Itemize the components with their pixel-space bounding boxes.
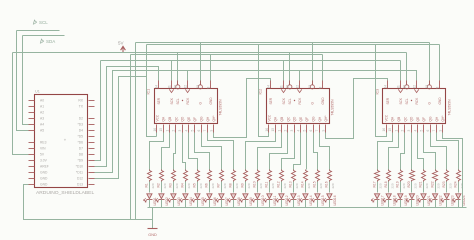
wire IC2 QG to R — [314, 133, 318, 170]
LED LED23 — [441, 182, 454, 208]
LED LED9 — [240, 182, 253, 208]
wire VCC riser IC3 — [376, 45, 387, 137]
svg-text:D7: D7 — [79, 146, 83, 150]
svg-text:RE3: RE3 — [40, 140, 47, 144]
svg-text:220: 220 — [379, 183, 383, 188]
svg-text:6: 6 — [426, 130, 430, 132]
svg-text:ARDUINO_SHIELDLABEL: ARDUINO_SHIELDLABEL — [36, 190, 94, 196]
svg-text:15: 15 — [388, 128, 392, 132]
LED LED2 — [156, 182, 169, 208]
svg-text:SCL: SCL — [176, 98, 180, 104]
LED LED19 — [395, 182, 408, 208]
resistor R2 — [157, 170, 167, 189]
svg-text:LED7: LED7 — [225, 197, 229, 205]
svg-text:13: 13 — [425, 85, 429, 89]
svg-text:R24: R24 — [454, 181, 458, 187]
wire SCL stub — [17, 30, 60, 32]
wire IC2 QC to R — [270, 133, 288, 170]
wire IC2 QE to R — [294, 133, 301, 170]
svg-text:220: 220 — [460, 183, 464, 188]
svg-text:LED8: LED8 — [237, 197, 241, 205]
resistor R11 — [265, 170, 275, 189]
svg-text:220: 220 — [175, 183, 179, 188]
svg-text:R9: R9 — [241, 183, 245, 187]
svg-text:R12: R12 — [277, 181, 281, 187]
svg-text:LED16: LED16 — [333, 195, 337, 205]
svg-text:QH: QH — [318, 116, 322, 121]
svg-text:IC2: IC2 — [259, 89, 263, 95]
svg-text:9: 9 — [439, 130, 443, 132]
wire IC1 QH to R — [208, 133, 234, 170]
svg-text:*D6: *D6 — [78, 140, 84, 144]
svg-text:VCC: VCC — [267, 114, 271, 121]
svg-text:13: 13 — [196, 85, 200, 89]
wire SCK drop IC1 — [171, 61, 173, 81]
svg-text:QD: QD — [293, 116, 297, 121]
resistor R24 — [454, 170, 464, 189]
LED LED24 — [453, 182, 466, 208]
svg-text:R23: R23 — [442, 181, 446, 187]
svg-text:220: 220 — [151, 183, 155, 188]
svg-text:220: 220 — [319, 183, 323, 188]
wire IC3 QH to R — [437, 133, 459, 170]
IC IC1 74LS595 shift register — [153, 81, 223, 133]
svg-text:220: 220 — [414, 183, 418, 188]
svg-text:QB: QB — [397, 117, 401, 122]
svg-text:QE: QE — [187, 117, 191, 122]
svg-text:13: 13 — [308, 85, 312, 89]
LED LED20 — [406, 182, 419, 208]
svg-text:3: 3 — [407, 130, 411, 132]
svg-text:12: 12 — [183, 85, 187, 89]
svg-text:QF: QF — [193, 117, 197, 121]
svg-text:3: 3 — [290, 130, 294, 132]
svg-text:SCK: SCK — [170, 97, 174, 104]
wire SCK bus — [101, 60, 401, 62]
resistor R12 — [277, 170, 287, 189]
svg-text:A3: A3 — [40, 116, 44, 120]
svg-text:6: 6 — [197, 130, 201, 132]
wire GND bus — [131, 54, 323, 56]
svg-text:QB: QB — [168, 117, 172, 122]
LED LED13 — [288, 182, 301, 208]
resistor R21 — [419, 170, 429, 189]
svg-text:R20: R20 — [407, 181, 411, 187]
svg-text:3: 3 — [178, 130, 182, 132]
wire VCC riser IC2 — [259, 45, 269, 137]
resistor R22 — [430, 170, 440, 189]
svg-text:SCK: SCK — [399, 97, 403, 104]
svg-text:220: 220 — [211, 183, 215, 188]
node SCL net label — [33, 20, 48, 25]
svg-text:12: 12 — [295, 85, 299, 89]
svg-text:R8: R8 — [229, 183, 233, 187]
LED LED8 — [228, 182, 241, 208]
wire IC1 QD to R — [183, 133, 186, 170]
svg-text:VIN: VIN — [40, 146, 46, 150]
svg-text:74LS595N: 74LS595N — [219, 99, 223, 116]
svg-text:220: 220 — [448, 183, 452, 188]
LED LED1 — [144, 182, 157, 208]
svg-text:5: 5 — [191, 130, 195, 132]
svg-text:QG: QG — [200, 116, 204, 121]
svg-text:220: 220 — [295, 183, 299, 188]
svg-text:8: 8 — [436, 87, 440, 89]
svg-text:SER: SER — [157, 97, 161, 104]
wire 5V net horizontal — [13, 52, 407, 54]
svg-text:LED4: LED4 — [189, 197, 193, 205]
svg-text:11: 11 — [396, 85, 400, 89]
svg-text:9: 9 — [322, 130, 326, 132]
resistor R9 — [241, 170, 251, 189]
svg-text:220: 220 — [223, 183, 227, 188]
svg-text:220: 220 — [235, 183, 239, 188]
svg-text:10: 10 — [174, 85, 178, 89]
svg-text:QD: QD — [410, 116, 414, 121]
svg-text:LED5: LED5 — [201, 197, 205, 205]
svg-text:D8: D8 — [79, 152, 83, 156]
node IC3 designator — [376, 89, 380, 95]
node U1 designator — [35, 89, 40, 93]
resistor R16 — [325, 170, 335, 189]
svg-text:D2: D2 — [79, 116, 83, 120]
svg-text:220: 220 — [331, 183, 335, 188]
svg-text:GND: GND — [438, 97, 442, 105]
svg-text:QF: QF — [305, 117, 309, 121]
resistor R5 — [193, 170, 203, 189]
svg-text:*D5: *D5 — [78, 134, 84, 138]
svg-text:RCK: RCK — [298, 97, 302, 105]
wire IC3 QD to R — [411, 133, 413, 170]
resistor R3 — [169, 170, 179, 189]
wire VCC1 feed — [95, 77, 147, 179]
wire VCC bus end drop — [439, 45, 441, 81]
svg-text:LED3: LED3 — [177, 197, 181, 205]
IC U1 Arduino shield symbol — [29, 95, 95, 188]
wire SCK left trunk — [95, 61, 101, 161]
svg-text:2: 2 — [172, 130, 176, 132]
svg-text:R5: R5 — [193, 183, 197, 187]
node U1 value label — [36, 190, 94, 196]
LED LED21 — [418, 182, 431, 208]
svg-text:5: 5 — [420, 130, 424, 132]
svg-text:QC: QC — [286, 116, 290, 121]
svg-text:220: 220 — [402, 183, 406, 188]
svg-text:A4: A4 — [40, 122, 44, 126]
svg-text:QH*: QH* — [324, 115, 328, 122]
svg-text:IC1: IC1 — [147, 89, 151, 95]
LED LED5 — [192, 182, 205, 208]
svg-text:*D10: *D10 — [76, 164, 83, 168]
svg-text:LED9: LED9 — [249, 197, 253, 205]
svg-text:AREF: AREF — [40, 164, 49, 168]
wire G-OE bus — [136, 42, 430, 44]
svg-text:D4: D4 — [79, 128, 83, 132]
wire IC3 QG to R — [431, 133, 447, 170]
LED LED7 — [216, 182, 229, 208]
svg-text:GND: GND — [209, 97, 213, 105]
svg-text:QD: QD — [181, 116, 185, 121]
svg-text:GND: GND — [148, 233, 157, 237]
wire IC2 QD to R — [282, 133, 295, 170]
LED LED10 — [252, 182, 265, 208]
svg-text:QF: QF — [422, 117, 426, 121]
wire SDA vertical — [23, 36, 29, 125]
resistor R6 — [205, 170, 215, 189]
wire IC2 QF to R — [306, 133, 308, 170]
svg-text:GND: GND — [40, 170, 48, 174]
svg-text:R10: R10 — [253, 181, 257, 187]
svg-text:A1: A1 — [40, 104, 44, 108]
svg-text:220: 220 — [437, 183, 441, 188]
svg-text:IC3: IC3 — [376, 89, 380, 95]
resistor R1 — [145, 170, 155, 189]
svg-text:GND: GND — [321, 97, 325, 105]
svg-text:LED1: LED1 — [153, 197, 157, 205]
svg-text:SCL: SCL — [405, 98, 409, 104]
svg-text:11: 11 — [279, 85, 283, 89]
wire VCC riser IC1 — [147, 45, 157, 137]
svg-text:GND: GND — [40, 176, 48, 180]
svg-text:14: 14 — [267, 85, 271, 89]
svg-text:220: 220 — [307, 183, 311, 188]
wire QH'1 to SER IC2 — [214, 79, 271, 138]
svg-text:R18: R18 — [384, 181, 388, 187]
IC IC3 74LS595 shift register — [382, 81, 452, 133]
svg-text:10: 10 — [403, 85, 407, 89]
svg-text:16: 16 — [265, 128, 269, 132]
svg-text:QE: QE — [416, 117, 420, 122]
wire SCK drop IC3 — [400, 61, 402, 81]
svg-text:220: 220 — [283, 183, 287, 188]
svg-text:R2: R2 — [157, 183, 161, 187]
svg-text:A5: A5 — [40, 128, 44, 132]
svg-text:R7: R7 — [217, 183, 221, 187]
wire IC1 QA to R — [150, 133, 164, 170]
resistor R14 — [301, 170, 311, 189]
svg-text:4: 4 — [413, 130, 417, 132]
svg-text:R16: R16 — [325, 181, 329, 187]
svg-text:*D9: *D9 — [78, 158, 84, 162]
ground GND symbol — [148, 208, 158, 238]
resistor R10 — [253, 170, 263, 189]
wire IC1 QB to R — [162, 133, 170, 170]
node IC2 designator — [259, 89, 263, 95]
svg-text:3.0V: 3.0V — [40, 158, 48, 162]
svg-text:QH: QH — [435, 116, 439, 121]
svg-text:10: 10 — [286, 85, 290, 89]
svg-text:74LS595N: 74LS595N — [448, 99, 452, 116]
wire IC3 QB to R — [389, 133, 399, 170]
svg-text:220: 220 — [187, 183, 191, 188]
node IC1 designator — [147, 89, 151, 95]
svg-text:74LS595N: 74LS595N — [331, 99, 335, 116]
LED LED11 — [264, 182, 277, 208]
wire IC2 QA to R — [246, 133, 276, 170]
svg-text:1: 1 — [394, 130, 398, 132]
svg-text:QH: QH — [206, 116, 210, 121]
svg-text:14: 14 — [384, 85, 388, 89]
wire SDA stub — [23, 35, 65, 37]
LED LED18 — [383, 182, 396, 208]
svg-text:R21: R21 — [419, 181, 423, 187]
svg-text:A2: A2 — [40, 110, 44, 114]
svg-text:5V: 5V — [118, 40, 124, 45]
svg-text:220: 220 — [259, 183, 263, 188]
resistor R20 — [407, 170, 417, 189]
svg-text:SER: SER — [386, 97, 390, 104]
resistor R13 — [289, 170, 299, 189]
LED LED3 — [168, 182, 181, 208]
svg-text:220: 220 — [163, 183, 167, 188]
resistor R17 — [372, 170, 382, 189]
svg-text:D12: D12 — [77, 176, 83, 180]
resistor R7 — [217, 170, 227, 189]
svg-text:R13: R13 — [289, 181, 293, 187]
wire QH'2 to SER IC3 — [326, 79, 388, 139]
wire SCK drop IC2 — [283, 61, 285, 81]
svg-text:2: 2 — [401, 130, 405, 132]
svg-text:16: 16 — [382, 128, 386, 132]
svg-text:14: 14 — [155, 85, 159, 89]
svg-text:9: 9 — [210, 130, 214, 132]
wire GND drop IC1 — [210, 55, 212, 81]
svg-text:1: 1 — [277, 130, 281, 132]
resistor R18 — [384, 170, 394, 189]
svg-text:220: 220 — [425, 183, 429, 188]
svg-text:LED2: LED2 — [165, 197, 169, 205]
svg-text:220: 220 — [199, 183, 203, 188]
wire RCK drop IC2 — [299, 71, 301, 81]
svg-text:R17: R17 — [372, 181, 376, 187]
wire 5V to Arduino 5V pin — [13, 53, 29, 155]
wire LED cathode rail — [148, 207, 467, 209]
svg-text:5: 5 — [303, 130, 307, 132]
svg-text:R11: R11 — [265, 182, 269, 188]
svg-text:6: 6 — [309, 130, 313, 132]
svg-text:GND: GND — [40, 182, 48, 186]
svg-text:220: 220 — [390, 183, 394, 188]
svg-text:11: 11 — [167, 85, 171, 89]
svg-text:220: 220 — [247, 183, 251, 188]
IC IC2 74LS595 shift register — [265, 81, 335, 133]
wire IC1 QF to R — [195, 133, 210, 170]
wire VCC stub IC1 — [156, 133, 158, 137]
svg-text:15: 15 — [159, 128, 163, 132]
LED LED22 — [429, 182, 442, 208]
wire GND feeder from U1 — [24, 185, 153, 220]
svg-text:QC: QC — [174, 116, 178, 121]
wire RCK drop IC1 — [187, 71, 189, 81]
wire GND drop IC2 — [322, 55, 324, 81]
LED LED16 — [324, 182, 337, 208]
wire GND left trunk — [130, 55, 132, 220]
resistor R23 — [442, 170, 452, 189]
svg-text:A0: A0 — [40, 98, 44, 102]
LED LED17 — [371, 182, 384, 208]
svg-text:SCL: SCL — [288, 98, 292, 104]
resistor R8 — [229, 170, 239, 189]
wire G-OE drop IC2 — [312, 43, 314, 85]
svg-text:15: 15 — [271, 128, 275, 132]
wire QH'3 to rail — [443, 133, 463, 208]
svg-text:QC: QC — [403, 116, 407, 121]
wire IC2 QH to R — [320, 133, 330, 170]
svg-text:7: 7 — [203, 130, 207, 132]
svg-text:4: 4 — [296, 130, 300, 132]
LED LED12 — [276, 182, 289, 208]
svg-text:QG: QG — [429, 116, 433, 121]
wire 5V drop IC3 — [406, 53, 408, 85]
svg-text:220: 220 — [271, 183, 275, 188]
LED LED4 — [180, 182, 193, 208]
LED LED14 — [300, 182, 313, 208]
wire IC3 QF to R — [424, 133, 436, 170]
svg-text:U1: U1 — [35, 89, 40, 93]
svg-text:D13: D13 — [77, 182, 83, 186]
svg-text:8: 8 — [319, 87, 323, 89]
resistor R19 — [396, 170, 406, 189]
svg-text:2: 2 — [284, 130, 288, 132]
wire IC3 QA to R — [378, 133, 393, 170]
svg-text:SCL: SCL — [39, 20, 48, 25]
wire IC2 QB to R — [258, 133, 282, 170]
wire G-OE drop IC1 — [200, 43, 202, 85]
svg-text:*D11: *D11 — [76, 170, 83, 174]
svg-text:R22: R22 — [430, 181, 434, 187]
power 5V supply symbol — [118, 40, 125, 52]
svg-text:R4: R4 — [181, 183, 185, 187]
svg-text:1: 1 — [165, 130, 169, 132]
svg-text:QE: QE — [299, 117, 303, 122]
wire 5V drop IC1 — [177, 53, 179, 85]
wire SER1 — [95, 67, 159, 167]
svg-text:R14: R14 — [301, 181, 305, 187]
svg-text:RCK: RCK — [415, 97, 419, 105]
wire RCK bus — [95, 71, 417, 173]
svg-text:VCC: VCC — [155, 114, 159, 121]
wire SCL vertical — [17, 31, 29, 131]
wire IC1 QE to R — [189, 133, 198, 170]
svg-text:8: 8 — [207, 87, 211, 89]
svg-text:R6: R6 — [205, 183, 209, 187]
svg-text:RCK: RCK — [186, 97, 190, 105]
svg-text:12: 12 — [412, 85, 416, 89]
wire VCC bus — [147, 44, 440, 46]
svg-text:SDA: SDA — [46, 39, 55, 44]
svg-text:R19: R19 — [396, 181, 400, 187]
wire IC1 QG to R — [202, 133, 222, 170]
wire G-OE left trunk — [135, 43, 137, 220]
wire IC3 QC to R — [401, 133, 405, 170]
svg-text:16: 16 — [153, 128, 157, 132]
svg-text:*D3: *D3 — [78, 122, 84, 126]
wire G-OE drop IC3 — [429, 43, 431, 85]
wire IC1 QC to R — [174, 133, 176, 170]
svg-text:QG: QG — [312, 116, 316, 121]
node SDA net label — [40, 39, 55, 44]
LED LED6 — [204, 182, 217, 208]
svg-text:LED6: LED6 — [213, 197, 217, 205]
svg-text:R3: R3 — [169, 183, 173, 187]
svg-text:R15: R15 — [313, 181, 317, 187]
svg-text:SER: SER — [269, 97, 273, 104]
svg-text:QH*: QH* — [441, 115, 445, 122]
svg-text:7: 7 — [432, 130, 436, 132]
wire IC3 QE to R — [418, 133, 424, 170]
svg-text:4: 4 — [184, 130, 188, 132]
LED LED15 — [312, 182, 325, 208]
